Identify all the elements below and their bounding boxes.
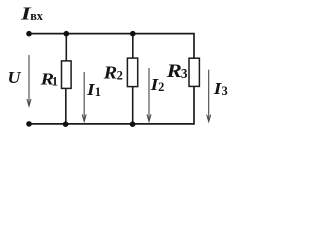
svg-text:вх: вх xyxy=(30,9,44,23)
node top R2 junction xyxy=(130,31,136,37)
arrow U (voltage, downward) xyxy=(27,55,31,106)
resistor R3 xyxy=(189,58,199,86)
node bottom-left junction xyxy=(26,121,32,127)
svg-text:R: R xyxy=(166,60,182,82)
wire R2 branch top xyxy=(132,34,134,59)
wire bottom bus with right corner up to R3 xyxy=(29,86,194,124)
svg-text:3: 3 xyxy=(222,84,228,98)
node bottom R2 junction xyxy=(130,121,136,127)
svg-text:3: 3 xyxy=(181,66,188,81)
arrow I1 (current, downward) xyxy=(82,72,86,121)
resistor R2 xyxy=(127,58,137,87)
svg-text:2: 2 xyxy=(117,68,123,82)
wire R1 branch top xyxy=(65,34,67,61)
svg-text:1: 1 xyxy=(95,85,101,99)
node top R1 junction xyxy=(64,31,70,37)
svg-text:R: R xyxy=(103,64,118,84)
svg-text:U: U xyxy=(8,67,22,86)
wire R2 branch bottom xyxy=(132,87,134,124)
arrow I3 (current, downward) xyxy=(207,70,211,122)
svg-text:2: 2 xyxy=(158,80,164,94)
svg-text:1: 1 xyxy=(52,74,58,88)
node top-left junction xyxy=(26,31,32,37)
resistor R1 xyxy=(62,61,72,89)
arrow I2 (current, downward) xyxy=(147,68,151,121)
node bottom R1 junction xyxy=(63,121,69,127)
wire top bus with right corner down to R3 xyxy=(29,34,194,59)
wire R1 branch bottom xyxy=(65,88,67,124)
